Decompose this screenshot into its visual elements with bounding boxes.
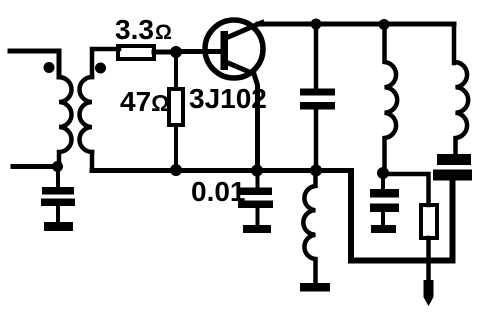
inductor L1 (below node B) — [303, 171, 315, 283]
ground (below C2) — [243, 225, 271, 233]
inductor L3 — [456, 62, 469, 154]
svg-text:47Ω: 47Ω — [120, 86, 170, 117]
wire base node to transistor base — [176, 49, 221, 54]
wire bottom link (rail to right branch) — [351, 171, 453, 261]
wire R1 to base node — [154, 50, 176, 55]
capacitor C3 — [300, 89, 335, 96]
wire node D to R3 — [383, 174, 429, 205]
wire primary top stub — [10, 51, 59, 77]
polarity dot primary — [44, 62, 55, 73]
resistor R3 — [421, 205, 437, 238]
transformer T1 secondary winding — [79, 77, 92, 152]
node primary bottom junction — [52, 161, 63, 172]
wire R2 to bottom rail — [174, 125, 178, 170]
wire bottom rail — [92, 168, 351, 173]
transformer T1 primary winding — [59, 77, 72, 166]
capacitor C1 (primary bypass) — [56, 166, 60, 187]
node base junction — [170, 46, 182, 58]
node bottom rail junction B — [310, 165, 322, 177]
wire node A down — [314, 24, 319, 88]
wire C3 to bottom rail — [314, 109, 319, 170]
wire top rail — [258, 22, 454, 27]
node top rail junction A — [311, 19, 322, 30]
ground (below C4) — [371, 225, 396, 233]
capacitor C4 — [381, 173, 385, 189]
wire top rail right corner down — [452, 24, 457, 63]
ground (below C1) — [44, 222, 73, 231]
transistor Q1 emitter lead — [226, 62, 258, 170]
node R2 bottom junction — [170, 164, 182, 176]
wire base node down to R2 — [174, 52, 178, 89]
svg-text:0.01: 0.01 — [191, 176, 246, 207]
resistor R2 47ohm — [169, 89, 183, 125]
ground (below L1) — [300, 283, 330, 292]
inductor L2 — [385, 24, 398, 173]
polarity dot secondary — [95, 63, 106, 74]
capacitor C5 — [437, 154, 471, 165]
wire secondary bottom to rail — [90, 152, 95, 171]
antenna arrow output — [424, 280, 434, 306]
wire secondary top to R1 — [92, 49, 119, 77]
node emitter junction — [251, 165, 263, 177]
transistor Q1 base bar — [221, 31, 229, 70]
transistor Q1 circle — [205, 20, 263, 78]
svg-text:3J102: 3J102 — [189, 83, 267, 114]
resistor R1 3.3ohm — [118, 46, 154, 59]
capacitor C2 0.01 — [256, 170, 260, 187]
node L2 bottom junction D — [377, 167, 389, 179]
wire R3 down — [426, 238, 431, 284]
node top rail junction C — [379, 19, 390, 30]
transistor Q1 collector lead — [226, 23, 262, 39]
wire primary bottom stub — [13, 164, 59, 169]
